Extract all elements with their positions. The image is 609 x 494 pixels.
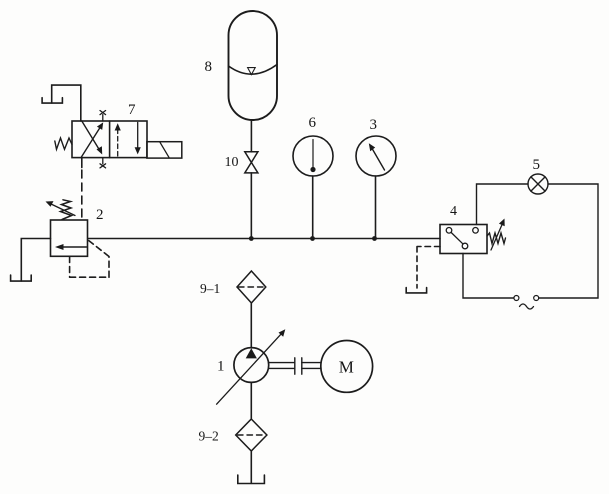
node junction gauge 6 line bbox=[310, 236, 315, 241]
directional valve 7 body bbox=[72, 121, 147, 158]
tank symbol top-left bbox=[42, 98, 62, 103]
tank symbol below relief valve bbox=[11, 275, 32, 281]
svg-text:9–2: 9–2 bbox=[199, 429, 219, 444]
tank symbol below switch 4 bbox=[406, 288, 426, 293]
svg-text:10: 10 bbox=[225, 155, 239, 170]
shaft coupling pump to motor bbox=[269, 358, 321, 374]
electrical wire lamp to right side down bbox=[539, 184, 598, 298]
gauge 6 bbox=[293, 136, 333, 176]
svg-text:2: 2 bbox=[96, 207, 104, 223]
drain line (dashed) from switch 4 to tank bbox=[417, 247, 440, 289]
wire gauge 3 to main line bbox=[375, 176, 377, 239]
wire filter 9-1 to pump bbox=[250, 303, 252, 348]
valve 7 solenoid bbox=[147, 142, 182, 158]
wire pump to filter 9-2 bbox=[250, 382, 252, 419]
node junction gauge 3 line bbox=[372, 236, 377, 241]
contact terminals bbox=[514, 296, 539, 301]
svg-text:6: 6 bbox=[309, 115, 317, 131]
electrical wire switch bottom to contacts bbox=[463, 254, 514, 299]
wire relief valve left to tank bbox=[21, 239, 50, 282]
switch 4 contacts bbox=[446, 228, 478, 249]
svg-text:7: 7 bbox=[128, 102, 136, 118]
relief valve 2 adjustment arrow bbox=[46, 201, 76, 215]
pressure switch 4 body bbox=[440, 225, 487, 254]
valve 7 blocked port top (x mark) bbox=[100, 111, 106, 122]
pilot line (dashed) from valve 7 to relief valve 2 bbox=[81, 158, 83, 168]
valve 7 return spring bbox=[55, 138, 72, 149]
lamp 5 bbox=[528, 174, 548, 194]
wire accumulator to valve 10 bbox=[250, 121, 252, 152]
drain line (dashed) of relief valve 2 bbox=[70, 241, 109, 278]
svg-text:5: 5 bbox=[533, 157, 541, 173]
svg-text:M: M bbox=[339, 357, 354, 376]
valve 7 blocked port bottom (x mark) bbox=[100, 158, 106, 168]
wire valve 7 top port to tank bbox=[52, 85, 81, 121]
wire valve 10 to main line bbox=[250, 173, 252, 239]
svg-text:3: 3 bbox=[370, 117, 378, 133]
gauge 3 bbox=[356, 136, 396, 176]
svg-text:4: 4 bbox=[450, 204, 457, 219]
switch 4 adjustment arrow bbox=[491, 219, 505, 251]
valve 7 crossed arrows (left position) bbox=[81, 121, 103, 158]
pump 1 variable displacement arrow bbox=[217, 329, 286, 404]
wire filter 9-2 to tank bbox=[250, 451, 252, 483]
electrical wire switch to lamp bbox=[477, 184, 529, 225]
tank symbol bottom bbox=[238, 475, 265, 484]
motor M bbox=[321, 341, 373, 393]
wire main pressure line bbox=[88, 238, 440, 240]
svg-text:1: 1 bbox=[217, 359, 225, 375]
valve 7 down arrow (right position) bbox=[135, 122, 141, 154]
valve 7 up arrow (right position, dash-dot) bbox=[115, 123, 121, 156]
relief valve 2 body bbox=[51, 220, 88, 256]
filter 9-1 bbox=[237, 271, 266, 303]
wire gauge 6 to main line bbox=[312, 176, 314, 239]
relief valve 2 spring bbox=[61, 200, 72, 220]
accumulator 8 bbox=[229, 11, 278, 120]
AC supply symbol bbox=[520, 304, 534, 309]
svg-text:8: 8 bbox=[205, 59, 213, 75]
relief valve 2 internal arrow bbox=[60, 246, 87, 248]
svg-text:9–1: 9–1 bbox=[200, 281, 220, 296]
shutoff valve 10 bbox=[245, 152, 258, 173]
pump 1 bbox=[234, 348, 269, 383]
node junction accumulator line bbox=[249, 236, 254, 241]
filter 9-2 bbox=[236, 419, 267, 451]
switch 4 spring bbox=[487, 233, 506, 244]
